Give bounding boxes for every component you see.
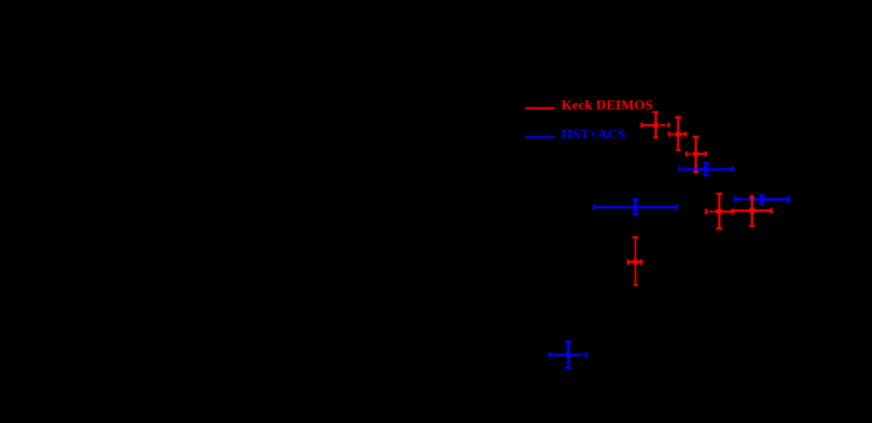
svg-text:Keck DEIMOS: Keck DEIMOS xyxy=(562,98,654,113)
legend HST+ACS line xyxy=(525,136,555,138)
red point R5 overdraw vertical (on top of blue dashes) xyxy=(751,197,753,205)
red point R4 xyxy=(706,194,733,229)
blue point B4 xyxy=(550,342,587,368)
red point R2 xyxy=(669,117,686,150)
blue point B2 xyxy=(594,199,677,214)
red point R3 xyxy=(687,137,707,172)
legend Keck DEIMOS line xyxy=(525,107,555,109)
red point R5 xyxy=(733,196,771,226)
red point R6 xyxy=(628,237,641,285)
svg-text:HST+ACS: HST+ACS xyxy=(562,127,626,142)
red point R1 xyxy=(642,112,669,137)
blue point B3 xyxy=(735,195,788,204)
blue point B1 xyxy=(680,163,734,175)
